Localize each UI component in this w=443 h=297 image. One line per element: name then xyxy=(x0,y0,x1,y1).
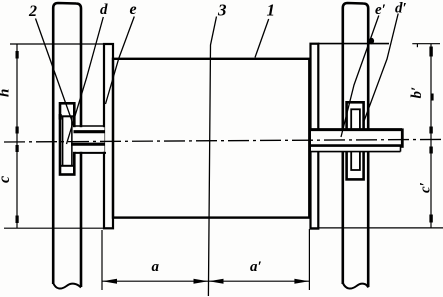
right shaft end (axle through slot, protruding) xyxy=(311,131,402,152)
svg-text:a: a xyxy=(152,259,160,275)
bolt blob on left bracket xyxy=(59,114,62,120)
leader of 2 xyxy=(36,19,73,122)
svg-text:d′: d′ xyxy=(395,1,407,17)
right dimension arrows (dots) xyxy=(429,47,433,223)
svg-text:h: h xyxy=(0,89,13,97)
svg-text:1: 1 xyxy=(267,1,276,20)
right bracket (slotted hanger) xyxy=(347,102,364,179)
svg-text:c′: c′ xyxy=(418,182,434,193)
leader of 1 xyxy=(255,19,269,58)
centerline (horizontal dash-dot axis) xyxy=(4,139,441,142)
svg-text:c: c xyxy=(0,176,13,183)
svg-text:3: 3 xyxy=(217,1,227,20)
extension line over right plate top xyxy=(318,43,389,45)
svg-text:b′: b′ xyxy=(409,87,425,99)
leader of d' xyxy=(364,14,398,122)
svg-text:2: 2 xyxy=(28,3,37,20)
left end plate xyxy=(104,44,113,228)
left shaft end (axle in slot) xyxy=(73,127,105,152)
svg-text:e′: e′ xyxy=(375,2,386,18)
left dimension arrows (dots) xyxy=(16,51,19,223)
right dimension: extension lines xyxy=(310,44,443,228)
svg-text:e: e xyxy=(130,1,137,18)
bottom dimension a / a' xyxy=(102,229,309,290)
bottom arrows xyxy=(102,279,309,284)
rail 2 (left vertical beam) xyxy=(53,3,81,289)
rail (right vertical beam) xyxy=(343,3,368,289)
leader of e' xyxy=(341,16,379,138)
leader of d xyxy=(67,17,104,144)
left bracket (slotted hanger) xyxy=(60,103,74,174)
svg-text:d: d xyxy=(100,2,108,18)
svg-text:a′: a′ xyxy=(250,259,262,275)
right end plate xyxy=(311,44,319,229)
leader of e xyxy=(106,17,135,105)
roller body 1 xyxy=(113,59,309,218)
mid-span line / leader of 3 xyxy=(208,17,216,297)
left dimension: extension lines xyxy=(4,44,114,229)
